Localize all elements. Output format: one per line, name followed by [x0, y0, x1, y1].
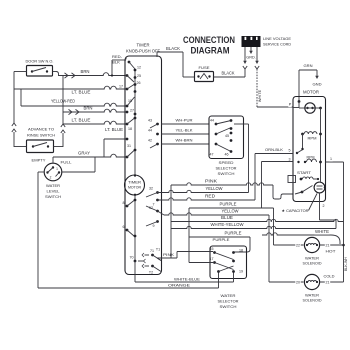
timer box	[125, 56, 162, 275]
svg-text:MOTOR: MOTOR	[128, 186, 141, 190]
svg-text:TIMER: TIMER	[128, 181, 141, 185]
svg-text:18: 18	[239, 249, 243, 253]
svg-text:EMPTY: EMPTY	[32, 158, 46, 163]
label TIMER KNOB-PUSH OFF	[126, 43, 160, 54]
svg-text:BLUE: BLUE	[221, 215, 233, 220]
svg-text:LT. BLUE: LT. BLUE	[72, 90, 91, 95]
svg-text:PURPLE: PURPLE	[225, 231, 242, 236]
svg-text:20: 20	[296, 281, 300, 285]
svg-text:SELECTOR: SELECTOR	[216, 166, 237, 171]
timer terminal 12	[134, 66, 141, 72]
label HOT	[326, 249, 337, 254]
motor capacitor C1	[314, 182, 326, 193]
svg-text:BLK: BLK	[112, 60, 120, 65]
wire cold 21	[320, 280, 344, 285]
svg-text:★ CAPACITOR: ★ CAPACITOR	[282, 208, 309, 213]
wire BLUE row	[171, 219, 344, 221]
wire RED row	[158, 198, 256, 200]
svg-text:17: 17	[119, 85, 123, 89]
connector on run A	[12, 123, 16, 132]
label SPEED SELECTOR SWITCH	[216, 160, 237, 176]
wire door sw left	[14, 71, 27, 73]
wire YELLOW-RED row	[21, 89, 125, 106]
svg-text:TIMER: TIMER	[137, 43, 150, 48]
svg-text:SWITCH: SWITCH	[220, 304, 237, 309]
label GRAY	[78, 151, 90, 156]
label CAPACITOR	[282, 194, 318, 214]
wire YELLOW row	[158, 190, 249, 192]
svg-text:YELLOW: YELLOW	[206, 186, 223, 191]
title CONNECTION DIAGRAM	[183, 35, 235, 56]
svg-text:WHITE: WHITE	[258, 89, 262, 102]
wire rinse sw right	[54, 146, 64, 148]
timer terminal 7	[153, 199, 159, 207]
svg-text:12: 12	[137, 66, 141, 70]
svg-text:42: 42	[148, 139, 152, 143]
timer terminal 31	[126, 138, 137, 159]
motor box M2	[293, 97, 326, 202]
label RPM 1	[308, 137, 317, 141]
wire pink to 45	[157, 252, 213, 261]
svg-text:2: 2	[50, 176, 52, 180]
wire LT BLUE row 2	[63, 121, 125, 124]
timer terminal 52	[146, 206, 159, 212]
wire WHITE row	[262, 233, 340, 244]
svg-text:WATER: WATER	[221, 293, 236, 298]
wire door sw right	[53, 72, 59, 77]
label PURPLE row	[220, 202, 237, 207]
svg-text:ADVANCE TO: ADVANCE TO	[28, 127, 54, 132]
wire BRN row 2	[63, 109, 125, 114]
svg-text:ORANGE: ORANGE	[168, 283, 190, 288]
svg-text:70: 70	[130, 256, 134, 260]
label WATER LEVEL SWITCH	[45, 183, 61, 199]
svg-text:WHITE-YELLOW: WHITE-YELLOW	[211, 222, 244, 227]
svg-text:WH-BRN: WH-BRN	[176, 138, 193, 143]
label FULL	[61, 160, 73, 165]
svg-text:26: 26	[137, 81, 141, 85]
wire ORN-BLK	[255, 148, 293, 200]
label YELLOW 2	[222, 209, 239, 214]
svg-text:WHITE: WHITE	[315, 229, 329, 234]
svg-text:WHITE-BLUE: WHITE-BLUE	[174, 276, 200, 281]
service cord left lead	[243, 47, 247, 64]
svg-text:5: 5	[289, 149, 291, 153]
svg-text:WATER: WATER	[305, 257, 319, 261]
fuse F1	[195, 72, 214, 82]
ground wire GRD from plug	[246, 47, 256, 60]
svg-text:8: 8	[123, 201, 125, 205]
wire run A lower	[13, 132, 15, 147]
svg-text:LT. BLUE: LT. BLUE	[72, 118, 91, 123]
motor start coil	[300, 177, 320, 180]
svg-text:MOTOR: MOTOR	[303, 90, 319, 95]
svg-text:PINK: PINK	[163, 253, 175, 257]
connector left lead	[243, 66, 247, 77]
wire YELLOW row 2	[158, 211, 270, 215]
timer center bus lower	[134, 195, 136, 261]
svg-text:BRN: BRN	[84, 106, 93, 111]
svg-text:31: 31	[127, 144, 131, 148]
svg-text:2: 2	[323, 204, 325, 208]
wire yellow to cold 20	[269, 215, 304, 282]
svg-text:GND: GND	[313, 83, 322, 87]
wire water level to gray	[52, 157, 54, 163]
svg-text:RPM: RPM	[308, 137, 317, 141]
timer terminal 44	[148, 129, 159, 136]
motor run winding	[301, 132, 322, 149]
timer terminal 27	[126, 105, 137, 116]
label WATER SOLENOID hot	[303, 257, 322, 266]
rinse switch S2	[27, 140, 54, 153]
water sw terminal 45	[210, 247, 235, 260]
wire lt blue riser	[103, 139, 105, 157]
label ORANGE	[168, 283, 190, 288]
wire PINK row	[171, 183, 293, 258]
svg-text:BLK-WH: BLK-WH	[344, 257, 348, 271]
timer terminal T2	[142, 264, 154, 275]
svg-text:LT. BLUE: LT. BLUE	[105, 127, 123, 132]
timer terminal 32	[146, 187, 159, 198]
wire orange drop	[38, 172, 44, 288]
svg-text:ORN-BLK: ORN-BLK	[265, 148, 283, 152]
svg-text:1: 1	[56, 167, 58, 171]
timer terminal 17	[119, 85, 134, 91]
speed drop vertical	[248, 124, 250, 193]
svg-text:START: START	[297, 170, 312, 175]
label WATER SOLENOID cold	[303, 294, 322, 303]
timer terminal 4	[125, 57, 135, 70]
speed sw terminal 46	[215, 139, 233, 156]
wire 3 row	[262, 162, 294, 209]
svg-text:BRN: BRN	[81, 69, 90, 74]
wire left vertical run A	[13, 72, 15, 124]
svg-text:9: 9	[153, 224, 155, 228]
timer center bus	[134, 70, 136, 175]
timer terminal 26	[134, 81, 141, 86]
wire WH-PUR	[162, 118, 210, 125]
svg-text:T1: T1	[156, 248, 160, 252]
svg-text:SWITCH: SWITCH	[218, 171, 235, 176]
wire purple to 18	[234, 237, 251, 252]
label ADVANCE TO RINSE SWITCH	[27, 127, 55, 138]
wire right edge vertical	[343, 162, 345, 245]
wire WHITE-YELLOW row	[171, 226, 336, 228]
svg-text:PURPLE: PURPLE	[220, 202, 237, 207]
svg-text:YELLOW-RED: YELLOW-RED	[51, 99, 75, 104]
svg-text:25: 25	[137, 74, 141, 78]
water sw terminal 19	[217, 266, 243, 274]
svg-text:SPEED: SPEED	[219, 160, 234, 165]
timer terminal 18	[126, 117, 137, 131]
label 20 cold	[295, 280, 300, 285]
wire YEL-BLK	[162, 128, 210, 135]
svg-text:HOT: HOT	[326, 249, 337, 254]
timer terminal 9	[146, 220, 159, 228]
svg-text:1: 1	[330, 157, 332, 161]
speed selector switch S4	[209, 116, 244, 159]
svg-text:27: 27	[130, 109, 134, 113]
wire blk-wh vertical	[342, 244, 345, 282]
motor start winding 2	[307, 156, 322, 164]
water sw terminal 17	[210, 257, 235, 270]
svg-text:P: P	[289, 103, 292, 107]
timer terminal 42	[148, 139, 159, 149]
timer terminal 71	[142, 249, 161, 261]
label PINK row	[205, 179, 217, 184]
svg-text:SWITCH: SWITCH	[45, 194, 61, 199]
motor inner bus	[315, 107, 322, 182]
svg-text:RED-: RED-	[112, 54, 123, 59]
label WHITE-YELLOW	[211, 222, 244, 227]
svg-text:71: 71	[150, 249, 154, 253]
label PURPLE 2	[225, 231, 242, 236]
label FUSE	[199, 65, 210, 70]
svg-text:DOOR SW N.O.: DOOR SW N.O.	[26, 59, 54, 64]
wire GRN to ground	[299, 64, 317, 101]
label DOOR SW N.O.	[26, 59, 54, 64]
svg-text:LEVEL: LEVEL	[47, 189, 61, 194]
wire PURPLE row 2	[189, 236, 250, 238]
svg-text:46: 46	[225, 153, 229, 157]
svg-text:4: 4	[125, 57, 127, 61]
svg-text:44: 44	[148, 129, 152, 133]
wire black fuse to cord	[214, 71, 246, 78]
label RED row	[205, 194, 215, 199]
speed sw terminal 45	[225, 127, 232, 138]
wire GRAY row	[53, 154, 125, 157]
label WATER SELECTOR SWITCH	[218, 293, 239, 309]
svg-text:FUSE: FUSE	[199, 65, 210, 70]
timer terminal 8	[123, 199, 137, 208]
wire left vertical run B	[62, 76, 64, 124]
svg-text:SELECTOR: SELECTOR	[218, 299, 239, 304]
wire rinse sw left	[14, 146, 27, 148]
hot water solenoid L1	[304, 237, 319, 252]
svg-text:DIAGRAM: DIAGRAM	[191, 46, 230, 56]
label LT. BLUE 2	[72, 118, 91, 123]
timer terminal 70	[130, 256, 146, 263]
svg-text:LINE VOLTAGE: LINE VOLTAGE	[263, 36, 291, 41]
svg-text:PINK: PINK	[205, 179, 217, 184]
timer terminal 43	[148, 119, 159, 129]
svg-text:YELLOW: YELLOW	[222, 209, 239, 214]
water selector switch S5	[210, 246, 247, 279]
svg-text:GRAY: GRAY	[78, 151, 90, 156]
wire white to motor P	[257, 102, 293, 107]
wire WHITE-BLUE	[135, 261, 234, 282]
wire 17 feed	[189, 208, 213, 263]
label LT. BLUE 1	[72, 90, 91, 95]
timer terminal T1	[156, 248, 160, 252]
label 22 hot	[295, 243, 300, 248]
label BLUE	[221, 215, 233, 220]
svg-text:SOLENOID: SOLENOID	[303, 262, 322, 266]
service cord right lead	[255, 47, 259, 64]
svg-text:45: 45	[225, 134, 229, 138]
connector right lead	[255, 66, 259, 107]
wire black timer to fuse	[157, 52, 195, 77]
timer terminal 6	[123, 225, 137, 237]
wire capacitor 2 lead	[320, 193, 337, 229]
svg-text:6: 6	[123, 225, 125, 229]
wire purple to hot 22	[274, 208, 304, 245]
svg-text:CONNECTION: CONNECTION	[183, 35, 235, 45]
label BLK-WH vertical	[344, 257, 348, 271]
label PURPLE top	[213, 237, 230, 242]
label RED-BLK	[112, 54, 123, 65]
service cord plug	[242, 36, 261, 47]
svg-text:43: 43	[148, 119, 152, 123]
timer motor M1	[125, 174, 145, 196]
motor start switch	[295, 186, 313, 195]
svg-text:GRD.: GRD.	[246, 56, 256, 60]
label WHITE vertical	[258, 89, 262, 102]
label EMPTY	[32, 158, 46, 163]
svg-text:21: 21	[326, 281, 330, 285]
timer contact 25	[126, 74, 141, 82]
speed sw output wire	[234, 123, 249, 125]
motor top junction	[293, 100, 300, 107]
svg-text:WATER: WATER	[46, 183, 60, 188]
svg-text:PURPLE: PURPLE	[213, 237, 230, 242]
wire hot 21	[320, 243, 344, 248]
label WHITE	[314, 229, 329, 235]
label YELLOW row	[206, 186, 223, 191]
svg-text:44: 44	[210, 119, 214, 123]
motor protector	[299, 102, 315, 114]
wire red-blk riser	[111, 60, 126, 77]
label YELLOW-RED	[51, 99, 75, 104]
wire LT BLUE row 3	[104, 138, 125, 140]
speed sw terminal 47	[210, 128, 233, 157]
svg-text:32: 32	[149, 187, 153, 191]
wire run B lower	[62, 133, 64, 147]
label COLD	[324, 274, 335, 279]
cold water solenoid L2	[304, 274, 319, 289]
motor terminal 5	[288, 148, 304, 154]
label LINE VOLTAGE SERVICE CORD	[263, 36, 291, 47]
svg-text:COLD: COLD	[324, 274, 335, 279]
water level switch S3	[44, 163, 62, 181]
svg-text:19: 19	[239, 270, 243, 274]
svg-text:22: 22	[296, 244, 300, 248]
svg-text:GRN: GRN	[304, 64, 313, 68]
svg-text:YEL-BLK: YEL-BLK	[176, 128, 193, 133]
svg-text:T2: T2	[149, 271, 153, 275]
wire WH-BRN	[162, 138, 210, 145]
wire BRN row 1	[59, 73, 126, 78]
label WHITE-BLUE	[174, 276, 200, 281]
timer terminal 15	[127, 90, 136, 106]
timer T2 arm	[153, 266, 162, 272]
door switch S1	[27, 66, 53, 77]
svg-text:WH-PUR: WH-PUR	[176, 118, 193, 123]
svg-text:BLACK: BLACK	[222, 71, 235, 76]
wire PURPLE row	[189, 207, 274, 209]
svg-text:WATER: WATER	[305, 294, 319, 298]
wire ORANGE	[38, 273, 219, 289]
svg-text:45: 45	[210, 247, 214, 251]
label MOTOR	[303, 90, 319, 95]
connector on run B	[61, 124, 65, 133]
svg-text:47: 47	[210, 153, 214, 157]
svg-text:21: 21	[326, 244, 330, 248]
svg-text:FULL: FULL	[61, 160, 73, 165]
water sw terminal 18	[239, 249, 243, 253]
label BRN 1	[81, 69, 90, 74]
svg-text:SERVICE CORD: SERVICE CORD	[263, 42, 291, 47]
label START	[297, 170, 312, 175]
motor terminal plate	[288, 176, 296, 183]
ground arrow GND	[313, 70, 322, 87]
svg-text:RED: RED	[205, 194, 215, 199]
speed sw terminal 44	[210, 119, 232, 126]
wire LT BLUE row 1	[14, 86, 125, 89]
wire water level right loop	[62, 157, 95, 172]
svg-text:BLACK: BLACK	[166, 46, 180, 51]
label BRN 2	[84, 106, 93, 111]
svg-text:18: 18	[128, 127, 132, 131]
motor terminal 1 wire	[326, 157, 344, 162]
svg-text:17: 17	[210, 257, 214, 261]
svg-text:KNOB-PUSH OFF: KNOB-PUSH OFF	[126, 49, 160, 54]
svg-text:RINSE SWITCH: RINSE SWITCH	[27, 133, 55, 138]
svg-text:RPM: RPM	[307, 156, 315, 160]
svg-text:3: 3	[289, 158, 291, 162]
svg-text:SOLENOID: SOLENOID	[303, 299, 322, 303]
motor terminal 3	[288, 157, 306, 163]
label BLACK	[166, 46, 180, 51]
label LT. BLUE 3	[105, 127, 123, 132]
